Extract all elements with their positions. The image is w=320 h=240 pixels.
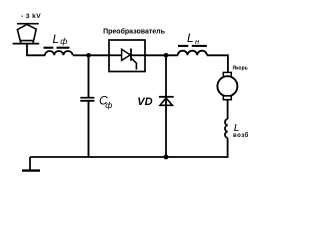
diode VD cathode bar (159, 96, 174, 98)
wire Lн to armature corner (207, 55, 228, 72)
wire thyristor to box edge (131, 54, 145, 56)
svg-text:ф: ф (60, 36, 67, 46)
wire from pantograph to Lф (27, 44, 45, 56)
pantograph base line (13, 43, 40, 45)
armature circle (217, 76, 237, 96)
inductor Lн (178, 51, 207, 56)
junction node diode branch bottom (164, 155, 169, 160)
contact wire line (17, 23, 39, 25)
wire to rail ground (29, 157, 31, 170)
converter box U1 (109, 40, 145, 72)
inductor Lн core dashes (178, 45, 188, 47)
wire box to Lн (145, 54, 178, 56)
wire into thyristor (109, 54, 122, 56)
svg-text:- 3 kV: - 3 kV (21, 13, 41, 20)
diode branch wire (165, 55, 167, 157)
thyristor gate (131, 58, 136, 70)
wire Lвозб to bottom corner (166, 138, 228, 157)
bottom return wire (30, 156, 166, 158)
svg-text:Якорь: Якорь (233, 66, 248, 72)
capacitor branch wire bottom (88, 101, 90, 157)
junction node diode branch top (164, 53, 169, 58)
svg-text:возб: возб (233, 132, 249, 139)
inductor Lф core dashes (44, 47, 54, 49)
svg-text:L: L (187, 31, 194, 45)
inductor Lвозб (225, 119, 228, 138)
capacitor branch wire top (88, 55, 90, 97)
inductor Lф (45, 51, 73, 55)
armature top brush (223, 72, 231, 76)
capacitor Cф bottom plate (80, 100, 94, 102)
capacitor Cф top plate (80, 97, 94, 99)
thyristor cathode bar (130, 49, 132, 61)
wire armature to Lвозб (227, 100, 229, 119)
svg-text:н: н (195, 37, 199, 46)
wire Lф to converter box (73, 54, 109, 56)
diode VD triangle (160, 98, 172, 105)
svg-text:ф: ф (105, 100, 112, 110)
svg-text:VD: VD (137, 96, 152, 108)
svg-text:L: L (53, 32, 60, 46)
rail ground bar (22, 169, 40, 171)
junction node capacitor branch (86, 53, 91, 58)
thyristor triangle (122, 49, 131, 60)
pantograph (17, 24, 36, 44)
armature bottom brush (223, 96, 231, 100)
svg-text:Преобразователь: Преобразователь (103, 27, 166, 35)
